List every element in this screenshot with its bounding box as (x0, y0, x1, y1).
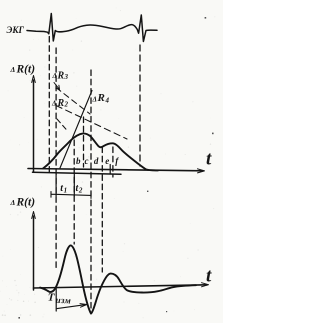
dashed diagonal from dR3 (56, 88, 90, 115)
dimension line 1 (33, 172, 122, 174)
dashed vertical H (below QRS2) (139, 45, 141, 166)
svg-text:R(t): R(t) (16, 197, 36, 209)
short steep dashed (57, 119, 68, 132)
Tizm bracket (55, 289, 57, 312)
svg-text:2: 2 (64, 101, 69, 109)
svg-text:t: t (206, 266, 212, 287)
svg-text:изм: изм (55, 295, 71, 306)
svg-text:t: t (206, 149, 212, 170)
svg-text:R: R (57, 98, 65, 109)
dashed vertical C (73, 140, 75, 244)
svg-text:4: 4 (105, 97, 110, 105)
svg-text:f: f (115, 156, 119, 166)
graph 1 main curve (43, 133, 158, 170)
svg-text:Δ: Δ (52, 72, 57, 80)
svg-text:1: 1 (64, 187, 68, 195)
graph 2 y-axis (33, 216, 35, 290)
dashed vertical D (peak marker) (83, 117, 85, 167)
svg-text:ЭКГ: ЭКГ (7, 25, 25, 35)
graph 1 y-axis (33, 80, 35, 172)
svg-text:e: e (105, 156, 109, 166)
ECG trace (27, 14, 157, 42)
svg-text:b: b (76, 156, 81, 166)
dashed vertical B (after QRS1, long down to graph2) (55, 48, 57, 270)
rising component line dR4 (60, 91, 92, 169)
graph 2 curve (40, 245, 196, 313)
dashed diagonal from dR2 (56, 106, 127, 140)
svg-text:Δ: Δ (92, 96, 97, 104)
graph 2 x-axis (34, 285, 208, 288)
graph 1 x-axis (28, 169, 203, 171)
dashed vertical E (long) (90, 70, 92, 311)
dR3 small arrow (54, 83, 60, 90)
svg-text:d: d (94, 156, 99, 166)
dimension line 2 with end ticks (51, 192, 91, 199)
solid ticks at x=56 and x=74 between dimension lines (56, 174, 74, 196)
dashed vertical F (101, 147, 103, 272)
svg-text:Δ: Δ (10, 198, 16, 207)
svg-text:R(t): R(t) (16, 64, 36, 76)
svg-text:c: c (85, 156, 89, 166)
dashed vertical A (through QRS1 q) (48, 37, 50, 173)
svg-text:2: 2 (78, 187, 83, 195)
svg-text:R: R (97, 92, 105, 104)
dashed vertical G (short) (112, 147, 114, 177)
svg-text:Δ: Δ (51, 100, 56, 108)
svg-text:R: R (57, 71, 65, 82)
svg-text:Δ: Δ (10, 65, 16, 74)
scan specks (decorative) (18, 17, 213, 319)
svg-text:3: 3 (64, 73, 69, 81)
